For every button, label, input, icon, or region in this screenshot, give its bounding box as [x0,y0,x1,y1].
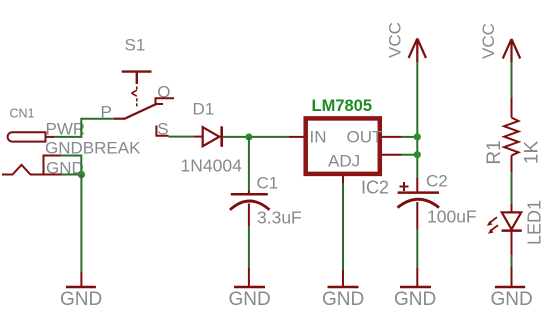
wire C2 to ground [416,229,418,268]
svg-text:P: P [101,103,112,122]
switch S1 pin P stub [114,118,125,120]
svg-text:R1: R1 [484,140,505,164]
resistor R1 top pin stub [511,98,513,118]
switch S1 throw contact S [155,126,168,136]
svg-text:GND: GND [491,289,533,310]
ground symbol 5 [495,267,525,287]
connector CN1 chassis GND pin zigzag symbol [2,165,44,175]
node junction VCC/OUT [414,133,421,140]
svg-text:D1: D1 [193,100,215,119]
svg-text:C1: C1 [257,174,279,193]
ground symbol 1 [66,272,96,287]
wire connector GND down [80,175,82,273]
wire ADJ right pin to rail [402,154,418,156]
diode D1 anode stub [194,136,203,138]
svg-text:1N4004: 1N4004 [181,156,243,176]
wire R1 to LED1 [511,172,513,204]
LED1 triangle [502,212,521,229]
resistor R1 bottom pin stub [511,155,513,172]
power VCC arrow symbol (right) [503,39,520,62]
svg-text:GND: GND [60,289,102,310]
regulator OUT pin stub [382,136,402,138]
svg-text:CN1: CN1 [10,107,35,121]
svg-text:1K: 1K [522,141,543,165]
wire VCC to R1 [511,62,513,98]
switch S1 actuator T-bar [122,72,152,84]
svg-text:GND: GND [394,289,436,310]
wire junction down to C1 [248,137,250,191]
regulator ADJ right pin stub [382,154,402,156]
capacitor C2 top plate [398,191,439,194]
capacitor C2 top pin stub [416,178,418,192]
power VCC arrow symbol (middle) [409,39,426,63]
switch S1 actuator dashed link [132,87,137,107]
node junction VCC/ADJ [414,151,421,158]
LED1 emission arrow 1 [490,217,497,222]
capacitor C1 top plate [231,193,268,196]
ground symbol 2 [234,268,265,287]
regulator bottom pin stub [342,175,344,184]
capacitor C2 bottom pin stub [416,202,418,229]
connector CN1 GNDBREAK pin stub (top-left of loop) [44,156,62,175]
svg-text:VCC: VCC [386,22,405,58]
wire C1 to ground [248,226,250,268]
LED1 emission arrow 2 [491,225,498,230]
svg-text:GND: GND [229,289,271,310]
svg-text:IN: IN [310,128,327,147]
svg-text:LM7805: LM7805 [312,97,373,115]
resistor R1 zigzag [504,118,518,156]
wire GND loop (green part) [61,156,81,175]
wire LED1 to ground [511,255,513,267]
svg-text:GND: GND [322,289,364,310]
svg-text:IC2: IC2 [361,178,389,198]
svg-text:LED1: LED1 [525,200,545,245]
wire regulator bottom pin to ground [342,183,344,270]
diode D1 triangle [203,127,220,146]
svg-text:C2: C2 [426,172,448,191]
switch S1 lever [124,104,157,119]
svg-text:ADJ: ADJ [328,152,360,171]
capacitor C1 top pin stub [248,191,250,194]
capacitor C1 bottom curved plate [230,201,270,210]
svg-text:100uF: 100uF [427,207,477,227]
svg-text:S1: S1 [125,36,146,55]
capacitor C1 bottom pin stub [248,204,250,227]
node junction diode/C1 [245,133,252,140]
svg-text:OUT: OUT [347,128,383,147]
LED1 anode pin stub [511,204,513,212]
ground symbol 3 [328,270,359,287]
ground symbol 4 [400,268,431,287]
switch S1 throw contact O [156,98,175,105]
diode D1 cathode bar [220,126,223,147]
svg-text:VCC: VCC [479,23,498,59]
LED1 cathode bar [502,229,522,232]
capacitor C2 bottom curved plate [398,199,440,207]
connector CN1 PWR pin pill symbol [8,132,46,141]
node junction at connector GND [78,171,85,178]
op-amp/regulator U1 box LM7805 [306,118,380,173]
wire diode cathode to IC input [223,136,289,138]
capacitor C2 plus sign [400,182,409,191]
wire OUT pin to VCC rail [402,136,418,138]
regulator IN pin stub [289,136,304,138]
wire switch S to diode D1 [169,136,195,138]
wire PWR net to switch P [54,119,114,137]
wire VCC rail down to C2 [416,62,418,178]
svg-text:3.3uF: 3.3uF [257,208,302,228]
connector CN1 PWR pin stub [46,136,55,138]
svg-text:PWR: PWR [46,120,86,139]
LED1 cathode pin stub [511,231,513,255]
